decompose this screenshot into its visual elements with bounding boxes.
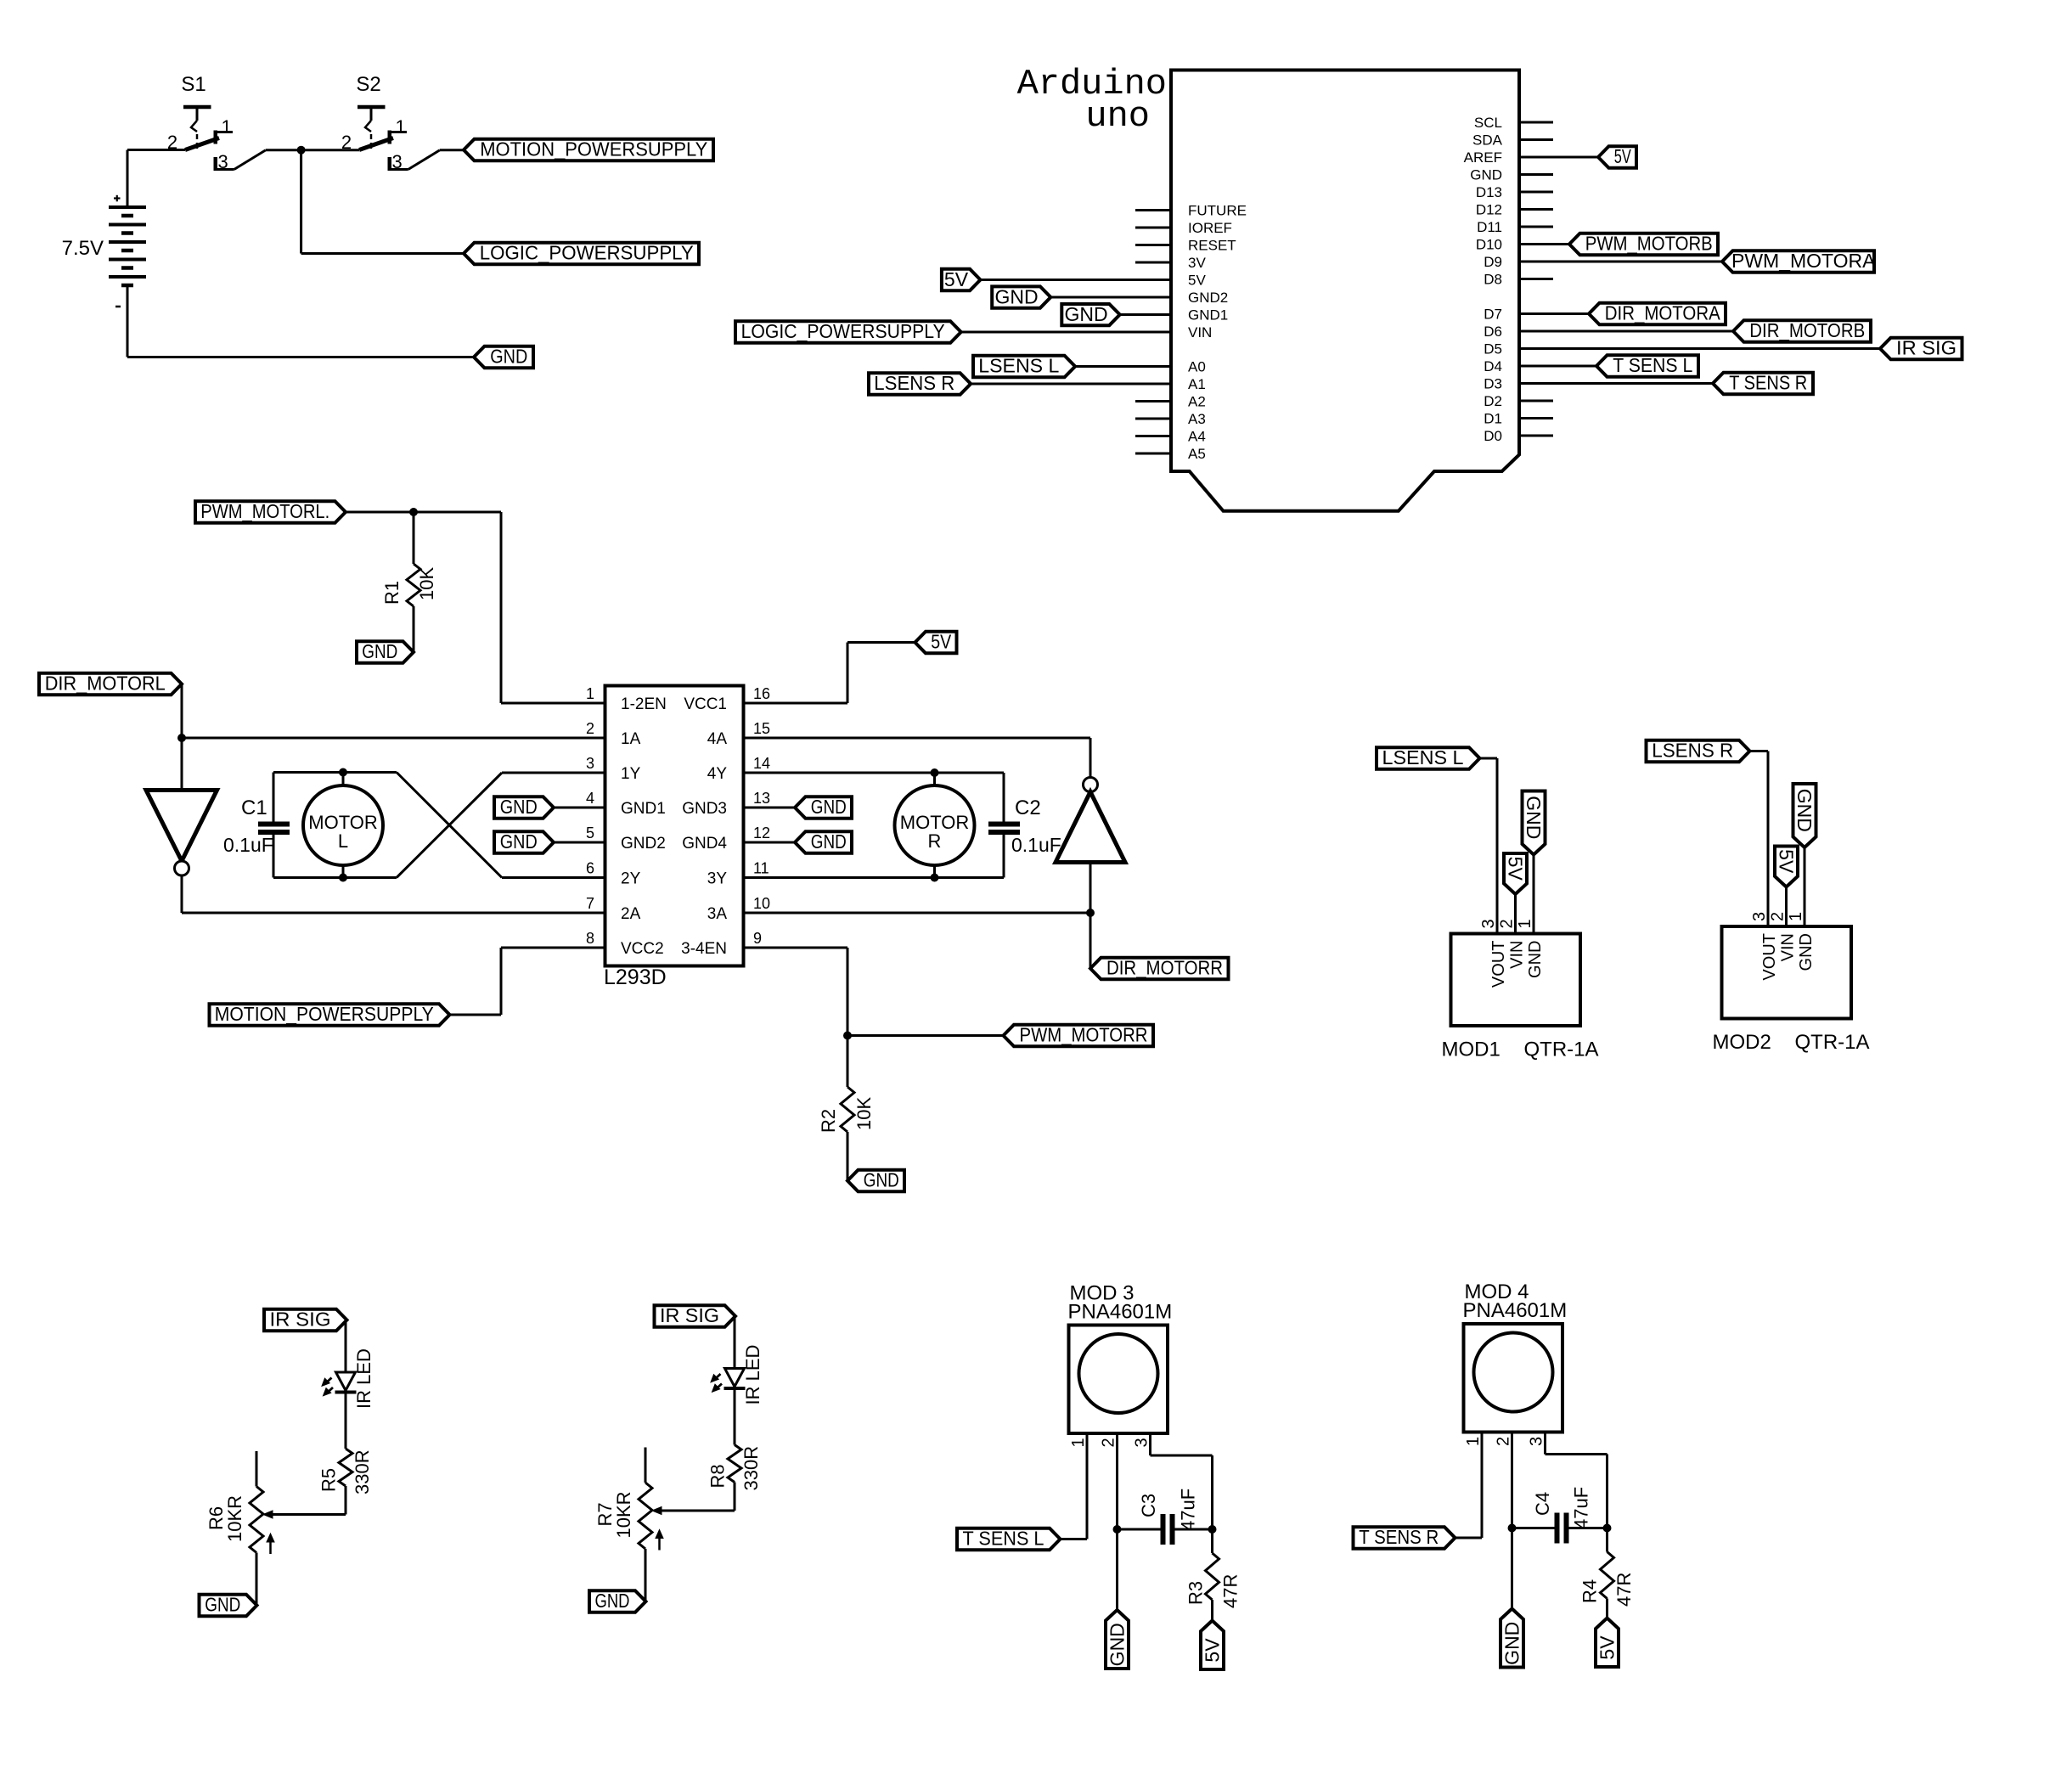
capacitor C1 0.1uF bbox=[223, 773, 290, 878]
capacitor C2 0.1uF bbox=[988, 773, 1061, 878]
svg-text:GND3: GND3 bbox=[682, 800, 727, 818]
U2 pin 8 VCC2 bbox=[586, 930, 664, 958]
flag T SENS R at MOD4 bbox=[1354, 1526, 1455, 1549]
resistor R8 330R bbox=[707, 1445, 763, 1491]
wire junction to R3 bbox=[1211, 1529, 1213, 1553]
svg-text:3-4EN: 3-4EN bbox=[681, 940, 727, 958]
junction between S1 and S2 bbox=[297, 146, 306, 155]
flag PWM_MOTORR bbox=[1004, 1024, 1154, 1047]
flag GND below MOD4 bbox=[1501, 1609, 1523, 1668]
svg-text:IR LED: IR LED bbox=[353, 1348, 374, 1409]
svg-text:D7: D7 bbox=[1484, 307, 1502, 323]
flag GND battery bbox=[474, 346, 533, 369]
svg-text:4A: 4A bbox=[707, 730, 728, 748]
flag LSENS R at U1 A1 pin bbox=[869, 372, 1171, 395]
svg-text:SCL: SCL bbox=[1474, 115, 1502, 131]
svg-text:S2: S2 bbox=[356, 73, 380, 96]
svg-text:GND: GND bbox=[1526, 941, 1545, 978]
wire inverter output to U2 pin7 bbox=[182, 875, 605, 913]
wire T SENS L to MOD3 pin1 bbox=[1061, 1433, 1088, 1539]
svg-text:2: 2 bbox=[586, 720, 594, 737]
U2 pin 1 1-2EN bbox=[586, 685, 667, 713]
svg-text:GND: GND bbox=[811, 830, 847, 853]
MOD1 pin 2 VIN bbox=[1498, 919, 1527, 968]
svg-text:10KR: 10KR bbox=[224, 1495, 245, 1542]
svg-text:8: 8 bbox=[586, 930, 594, 947]
svg-text:47R: 47R bbox=[1613, 1573, 1635, 1607]
resistor R2 10K bbox=[818, 1087, 875, 1133]
svg-text:QTR-1A: QTR-1A bbox=[1524, 1038, 1599, 1061]
flag GND below R7 bbox=[589, 1590, 646, 1613]
flag GND below R1 bbox=[357, 640, 414, 663]
flag 5V at U1 5V pin bbox=[942, 268, 1171, 290]
svg-text:T SENS L: T SENS L bbox=[963, 1528, 1044, 1550]
flag LOGIC_POWERSUPPLY at U1 VIN pin bbox=[735, 320, 1171, 343]
U1 pin D7 bbox=[1484, 307, 1502, 323]
svg-text:2Y: 2Y bbox=[621, 870, 641, 888]
svg-text:A4: A4 bbox=[1188, 429, 1206, 445]
svg-text:4Y: 4Y bbox=[707, 765, 728, 783]
U2 pin 16 VCC1 bbox=[684, 685, 770, 713]
svg-text:GND: GND bbox=[1501, 1622, 1523, 1665]
svg-text:GND: GND bbox=[1523, 796, 1545, 839]
svg-text:T SENS L: T SENS L bbox=[1613, 354, 1692, 376]
wire U2 pin8 to MOTION_POWERSUPPLY bbox=[450, 948, 605, 1015]
flag GND at U2 pin13 bbox=[744, 796, 853, 819]
svg-text:GND: GND bbox=[1793, 789, 1816, 832]
svg-text:330R: 330R bbox=[352, 1449, 373, 1494]
module MOD4 PNA4601M body bbox=[1463, 1280, 1568, 1432]
U1 pin 5V bbox=[1188, 273, 1206, 289]
svg-text:9: 9 bbox=[753, 930, 762, 947]
U2 pin 13 GND3 bbox=[682, 790, 770, 818]
U1 pin D8 bbox=[1484, 272, 1553, 288]
junction MOD3 pin2 / cap bbox=[1113, 1525, 1122, 1534]
svg-text:330R: 330R bbox=[740, 1446, 762, 1491]
svg-text:13: 13 bbox=[753, 790, 770, 807]
svg-text:GND: GND bbox=[1064, 303, 1107, 325]
U1 pin A3 bbox=[1135, 411, 1206, 427]
svg-text:DIR_MOTORA: DIR_MOTORA bbox=[1605, 302, 1721, 324]
motor M2 MOTOR R bbox=[895, 773, 975, 878]
svg-text:D11: D11 bbox=[1477, 219, 1502, 235]
module MOD1 QTR-1A body bbox=[1442, 934, 1599, 1061]
svg-text:D13: D13 bbox=[1476, 184, 1502, 200]
U1 pin D11 bbox=[1477, 219, 1553, 235]
svg-text:PWM_MOTORB: PWM_MOTORB bbox=[1585, 233, 1713, 255]
LED right IR LED bbox=[711, 1345, 763, 1405]
svg-text:D4: D4 bbox=[1484, 358, 1502, 374]
U1 pin AREF bbox=[1464, 149, 1502, 166]
svg-text:R8: R8 bbox=[707, 1464, 729, 1488]
U2 pin 15 4A bbox=[707, 720, 770, 748]
flag LSENS R at MOD2 bbox=[1647, 740, 1750, 763]
svg-text:R2: R2 bbox=[818, 1109, 839, 1133]
svg-text:GND: GND bbox=[500, 830, 538, 853]
svg-text:4: 4 bbox=[586, 790, 594, 807]
flag 5V at U1 AREF pin bbox=[1519, 145, 1636, 168]
svg-text:3: 3 bbox=[218, 151, 228, 172]
flag IR SIG at U1 D5 pin bbox=[1519, 337, 1962, 360]
svg-text:DIR_MOTORL: DIR_MOTORL bbox=[45, 673, 166, 695]
wire U2 pin6 cross to motor L bbox=[273, 773, 605, 878]
svg-text:DIR_MOTORB: DIR_MOTORB bbox=[1749, 319, 1865, 341]
svg-text:GND: GND bbox=[811, 796, 847, 818]
flag GND below R2 bbox=[847, 1169, 904, 1192]
svg-text:D2: D2 bbox=[1484, 393, 1502, 409]
wire PWM_MOTORL to U2 pin1 bbox=[346, 512, 605, 703]
U1 pin FUTURE bbox=[1135, 203, 1247, 219]
svg-text:VIN: VIN bbox=[1779, 933, 1798, 961]
wire S2 pin3 to MOTION_POWERSUPPLY bbox=[440, 149, 464, 151]
svg-text:11: 11 bbox=[753, 860, 769, 877]
svg-text:GND: GND bbox=[1470, 167, 1502, 183]
U2 pin 2 1A bbox=[586, 720, 641, 748]
svg-text:PNA4601M: PNA4601M bbox=[1068, 1301, 1173, 1324]
module MOD3 PNA4601M body bbox=[1068, 1282, 1173, 1434]
U1 pin A1 bbox=[1188, 376, 1206, 392]
svg-text:0.1uF: 0.1uF bbox=[1011, 834, 1061, 856]
svg-text:10K: 10K bbox=[853, 1097, 875, 1130]
svg-text:PWM_MOTORL.: PWM_MOTORL. bbox=[200, 500, 329, 522]
svg-text:D8: D8 bbox=[1484, 272, 1502, 288]
svg-text:15: 15 bbox=[753, 720, 770, 737]
svg-text:6: 6 bbox=[586, 860, 594, 877]
svg-text:VCC1: VCC1 bbox=[684, 695, 727, 713]
svg-text:3V: 3V bbox=[1188, 255, 1206, 271]
U2 pin 4 GND1 bbox=[586, 790, 666, 818]
svg-text:VIN: VIN bbox=[1508, 941, 1527, 969]
wire R1 to GND bbox=[413, 606, 415, 652]
U1 pin GND2 bbox=[1188, 290, 1228, 306]
svg-text:C3: C3 bbox=[1138, 1494, 1159, 1517]
svg-text:VOUT: VOUT bbox=[1760, 933, 1779, 981]
svg-text:DIR_MOTORR: DIR_MOTORR bbox=[1106, 957, 1223, 979]
motor M1 MOTOR L bbox=[303, 773, 383, 878]
U1 pin GND1 bbox=[1188, 307, 1228, 324]
junction motor R bottom bbox=[931, 874, 939, 882]
junction at U2 pin10 wire bbox=[1086, 909, 1095, 917]
svg-text:MOD2: MOD2 bbox=[1713, 1031, 1771, 1054]
svg-text:5V: 5V bbox=[931, 631, 952, 653]
MOD4 pin 2 bbox=[1495, 1437, 1513, 1446]
svg-text:2: 2 bbox=[1498, 919, 1517, 928]
svg-text:1A: 1A bbox=[621, 730, 641, 748]
svg-text:7.5V: 7.5V bbox=[62, 237, 104, 260]
module MOD2 QTR-1A body bbox=[1713, 926, 1870, 1054]
capacitor C3 47uF bbox=[1118, 1489, 1213, 1545]
wire battery- to GND bbox=[127, 285, 474, 357]
flag PWM_MOTORB at U1 D10 pin bbox=[1519, 233, 1718, 256]
svg-text:VOUT: VOUT bbox=[1489, 941, 1508, 988]
wire junction to DIR_MOTORR bbox=[1089, 913, 1092, 969]
U1 pin D9 bbox=[1484, 254, 1502, 270]
svg-text:R4: R4 bbox=[1579, 1579, 1601, 1603]
U1 pin D0 bbox=[1484, 428, 1553, 444]
junction MOD4 pin3 net bbox=[1603, 1524, 1612, 1533]
MOD2 pin 3 VOUT bbox=[1750, 912, 1779, 981]
svg-text:LSENS L: LSENS L bbox=[1382, 746, 1464, 768]
svg-text:GND: GND bbox=[205, 1594, 240, 1616]
wire IR SIG to LED right bbox=[734, 1316, 736, 1369]
wire R2 to GND bbox=[847, 1132, 849, 1181]
wire U2 pin3 cross to motor L bbox=[273, 773, 605, 878]
svg-text:R: R bbox=[928, 830, 942, 852]
svg-text:3Y: 3Y bbox=[707, 870, 728, 888]
svg-text:FUTURE: FUTURE bbox=[1188, 203, 1247, 219]
svg-text:T SENS R: T SENS R bbox=[1729, 372, 1807, 394]
U1 pin D1 bbox=[1484, 411, 1553, 427]
svg-text:GND: GND bbox=[490, 346, 527, 368]
svg-text:7: 7 bbox=[586, 895, 594, 912]
flag LOGIC_POWERSUPPLY bbox=[464, 242, 699, 265]
junction MOD4 pin2 / cap bbox=[1508, 1524, 1517, 1533]
wire MOD4 pin3 to cap/resistor bbox=[1546, 1432, 1607, 1528]
U2 pin 9 3-4EN bbox=[681, 930, 762, 958]
junction motor L bottom bbox=[339, 874, 347, 882]
svg-text:3: 3 bbox=[1479, 919, 1498, 928]
U1 pin SCL bbox=[1474, 115, 1553, 131]
U1 pin D6 bbox=[1484, 324, 1502, 340]
svg-text:LSENS R: LSENS R bbox=[874, 372, 954, 394]
wire LED to R8 bbox=[734, 1390, 736, 1445]
trimmer R7 10KR bbox=[594, 1448, 663, 1551]
MOD4 pin 1 bbox=[1464, 1437, 1483, 1446]
svg-text:47R: 47R bbox=[1220, 1574, 1242, 1608]
svg-text:R5: R5 bbox=[318, 1468, 340, 1492]
flag LSENS L at MOD1 bbox=[1377, 746, 1480, 769]
svg-text:GND1: GND1 bbox=[621, 800, 666, 818]
flag DIR_MOTORA at U1 D7 pin bbox=[1519, 302, 1726, 325]
svg-text:D1: D1 bbox=[1484, 411, 1502, 427]
svg-text:PNA4601M: PNA4601M bbox=[1463, 1299, 1568, 1322]
svg-text:uno: uno bbox=[1085, 96, 1150, 137]
trimmer R6 10KR bbox=[206, 1451, 274, 1554]
svg-text:3A: 3A bbox=[707, 905, 728, 923]
U1 pin A4 bbox=[1135, 429, 1206, 445]
svg-text:A0: A0 bbox=[1188, 359, 1206, 375]
U2 pin 6 2Y bbox=[586, 860, 641, 888]
wire junction to LOGIC_POWERSUPPLY bbox=[301, 150, 464, 254]
flag GND at U1 GND2 pin bbox=[992, 286, 1171, 308]
svg-text:12: 12 bbox=[753, 825, 770, 841]
wire MOD3 pin3 to cap/resistor bbox=[1151, 1433, 1213, 1529]
flag T SENS L at MOD3 bbox=[957, 1528, 1061, 1551]
svg-text:IR SIG: IR SIG bbox=[1896, 337, 1957, 359]
flag 5V below R4 bbox=[1596, 1618, 1619, 1668]
U1 pin D5 bbox=[1484, 341, 1502, 357]
svg-text:A5: A5 bbox=[1188, 446, 1206, 462]
svg-text:GND2: GND2 bbox=[1188, 290, 1228, 306]
flag DIR_MOTORL bbox=[39, 673, 182, 695]
resistor R4 47R bbox=[1579, 1552, 1636, 1607]
svg-text:VCC2: VCC2 bbox=[621, 940, 664, 958]
svg-text:C4: C4 bbox=[1532, 1492, 1553, 1516]
U1 pin D13 bbox=[1476, 184, 1553, 200]
wire LED to R5 bbox=[345, 1394, 347, 1449]
MOD2 pin 2 VIN bbox=[1769, 912, 1798, 961]
MOD3 pin 2 bbox=[1100, 1438, 1118, 1447]
svg-text:D9: D9 bbox=[1484, 254, 1502, 270]
svg-text:3: 3 bbox=[1750, 912, 1769, 921]
U1 pin D10 bbox=[1476, 237, 1502, 253]
flag GND below R6 bbox=[200, 1594, 257, 1617]
U1 pin D3 bbox=[1484, 376, 1502, 392]
U2 pin 10 3A bbox=[707, 895, 770, 923]
flag 5V below R3 bbox=[1201, 1621, 1224, 1670]
MOD1 pin 3 VOUT bbox=[1479, 919, 1508, 988]
wire LSENS L to MOD1 VOUT bbox=[1480, 758, 1498, 934]
flag PWM_MOTORL bbox=[195, 500, 346, 523]
U1 pin A0 bbox=[1188, 359, 1206, 375]
U2 pin 3 1Y bbox=[586, 755, 641, 783]
U1 pin A2 bbox=[1135, 394, 1206, 410]
svg-text:D0: D0 bbox=[1484, 428, 1502, 444]
flag 5V at MOD1 VIN bbox=[1504, 853, 1527, 934]
wire R5 to R6 wiper bbox=[274, 1486, 346, 1515]
inverter U4 right bbox=[1056, 778, 1125, 863]
svg-text:A2: A2 bbox=[1188, 394, 1206, 410]
MOD1 pin 1 GND bbox=[1516, 919, 1545, 978]
svg-text:1: 1 bbox=[586, 685, 594, 702]
svg-text:1: 1 bbox=[1787, 912, 1805, 921]
svg-text:MOD1: MOD1 bbox=[1442, 1038, 1501, 1061]
flag 5V at MOD2 VIN bbox=[1775, 847, 1798, 927]
svg-text:IR LED: IR LED bbox=[742, 1345, 763, 1405]
svg-text:5V: 5V bbox=[1596, 1635, 1619, 1660]
svg-text:LOGIC_POWERSUPPLY: LOGIC_POWERSUPPLY bbox=[741, 320, 945, 342]
junction motor L top bbox=[339, 768, 347, 777]
resistor R1 10K bbox=[381, 512, 437, 606]
MOD3 pin 1 bbox=[1069, 1438, 1088, 1447]
svg-text:D12: D12 bbox=[1476, 202, 1502, 218]
svg-text:D3: D3 bbox=[1484, 376, 1502, 392]
svg-text:1: 1 bbox=[396, 116, 406, 138]
wire U2 pin14 to motor R and C2 bbox=[744, 772, 1005, 774]
wire U2 pin16 to 5V bbox=[744, 643, 915, 704]
svg-text:R3: R3 bbox=[1185, 1581, 1207, 1605]
wire R6 to GND bbox=[256, 1553, 258, 1606]
flag IR SIG (right) bbox=[655, 1304, 736, 1327]
wire R3 to 5V bbox=[1211, 1600, 1213, 1621]
wire S1 pin3 to S2 pin2 bbox=[266, 149, 359, 151]
Arduino Uno title text bbox=[1017, 64, 1167, 137]
svg-text:5V: 5V bbox=[944, 268, 969, 290]
svg-text:14: 14 bbox=[753, 755, 770, 772]
svg-text:GND: GND bbox=[595, 1590, 630, 1612]
wire T SENS R to MOD4 pin1 bbox=[1455, 1432, 1483, 1539]
svg-text:2: 2 bbox=[1769, 912, 1788, 921]
svg-text:GND1: GND1 bbox=[1188, 307, 1228, 324]
U1 pin D2 bbox=[1484, 393, 1553, 409]
svg-text:1-2EN: 1-2EN bbox=[621, 695, 667, 713]
svg-text:5V: 5V bbox=[1202, 1638, 1224, 1663]
svg-text:SDA: SDA bbox=[1472, 132, 1503, 149]
svg-text:T SENS R: T SENS R bbox=[1359, 1526, 1439, 1548]
junction motor R top bbox=[931, 768, 939, 777]
svg-text:5V: 5V bbox=[1188, 273, 1206, 289]
U1 pin RESET bbox=[1135, 238, 1236, 254]
svg-text:IR SIG: IR SIG bbox=[660, 1304, 719, 1326]
svg-text:S1: S1 bbox=[181, 73, 206, 96]
flag PWM_MOTORA at U1 D9 pin bbox=[1519, 250, 1876, 273]
U1 pin IOREF bbox=[1135, 220, 1232, 236]
svg-text:3: 3 bbox=[1528, 1437, 1546, 1446]
wire DIR_MOTORL to inverter and U2 pin2 bbox=[182, 684, 605, 791]
svg-text:RESET: RESET bbox=[1188, 238, 1236, 254]
battery BAT1 7.5V bbox=[62, 150, 146, 307]
svg-text:3: 3 bbox=[392, 151, 403, 172]
wire R7 to GND bbox=[645, 1549, 647, 1601]
svg-text:LSENS L: LSENS L bbox=[978, 355, 1059, 377]
svg-text:L293D: L293D bbox=[604, 965, 667, 989]
junction at R2 top bbox=[843, 1032, 852, 1040]
svg-text:MOTION_POWERSUPPLY: MOTION_POWERSUPPLY bbox=[215, 1003, 434, 1025]
svg-text:C1: C1 bbox=[241, 796, 267, 819]
wire MOD3 pin2 to GND bbox=[1116, 1433, 1118, 1610]
svg-text:5V: 5V bbox=[1505, 857, 1527, 881]
U2 pin 7 2A bbox=[586, 895, 641, 923]
svg-text:1: 1 bbox=[1464, 1437, 1483, 1446]
wire U2 pin11 to motor R and C2 bbox=[744, 876, 1005, 879]
svg-text:16: 16 bbox=[753, 685, 770, 702]
svg-text:47uF: 47uF bbox=[1178, 1489, 1199, 1531]
flag DIR_MOTORB at U1 D6 pin bbox=[1519, 319, 1871, 342]
svg-text:GND: GND bbox=[1106, 1623, 1129, 1666]
U1 pin GND bbox=[1470, 167, 1553, 183]
flag GND at U2 pin12 bbox=[744, 830, 853, 853]
switch S1 bbox=[181, 73, 206, 96]
svg-text:LOGIC_POWERSUPPLY: LOGIC_POWERSUPPLY bbox=[480, 242, 694, 264]
svg-text:D10: D10 bbox=[1476, 237, 1502, 253]
MOD3 pin 3 bbox=[1133, 1438, 1151, 1447]
svg-text:A1: A1 bbox=[1188, 376, 1206, 392]
svg-text:R1: R1 bbox=[381, 581, 403, 605]
svg-text:10: 10 bbox=[753, 895, 770, 912]
junction at R1 top bbox=[409, 508, 418, 516]
switch S2 bbox=[356, 73, 380, 96]
svg-text:GND: GND bbox=[864, 1169, 899, 1191]
flag T SENS R at U1 D3 pin bbox=[1519, 372, 1813, 395]
flag T SENS L at U1 D4 pin bbox=[1519, 354, 1698, 377]
wire IR SIG to LED left bbox=[345, 1320, 347, 1373]
capacitor C4 47uF bbox=[1512, 1487, 1607, 1544]
svg-text:IOREF: IOREF bbox=[1188, 220, 1232, 236]
svg-text:3: 3 bbox=[1133, 1438, 1151, 1447]
svg-text:5V: 5V bbox=[1776, 849, 1798, 874]
U1 pin VIN bbox=[1188, 324, 1212, 341]
U1 pin 3V bbox=[1135, 255, 1206, 271]
U2 pin 12 GND4 bbox=[682, 825, 770, 853]
MOD2 pin 1 GND bbox=[1787, 912, 1816, 971]
svg-text:PWM_MOTORR: PWM_MOTORR bbox=[1020, 1024, 1148, 1046]
svg-text:QTR-1A: QTR-1A bbox=[1795, 1031, 1870, 1054]
wire R4 to 5V bbox=[1606, 1599, 1608, 1618]
svg-text:D6: D6 bbox=[1484, 324, 1502, 340]
svg-text:1: 1 bbox=[1069, 1438, 1088, 1447]
flag GND below MOD3 bbox=[1106, 1610, 1129, 1669]
svg-text:MOTION_POWERSUPPLY: MOTION_POWERSUPPLY bbox=[480, 138, 707, 160]
wire U2 pin15 to inverter R bbox=[744, 738, 1091, 778]
svg-text:C2: C2 bbox=[1015, 796, 1041, 819]
flag GND at U2 pin4 bbox=[494, 796, 605, 819]
svg-text:AREF: AREF bbox=[1464, 149, 1502, 166]
svg-text:L: L bbox=[338, 830, 348, 852]
svg-text:GND: GND bbox=[1797, 933, 1816, 971]
U1 pin D12 bbox=[1476, 202, 1553, 218]
wire junction to R4 bbox=[1606, 1528, 1608, 1552]
inverter U3 left bbox=[146, 791, 217, 876]
